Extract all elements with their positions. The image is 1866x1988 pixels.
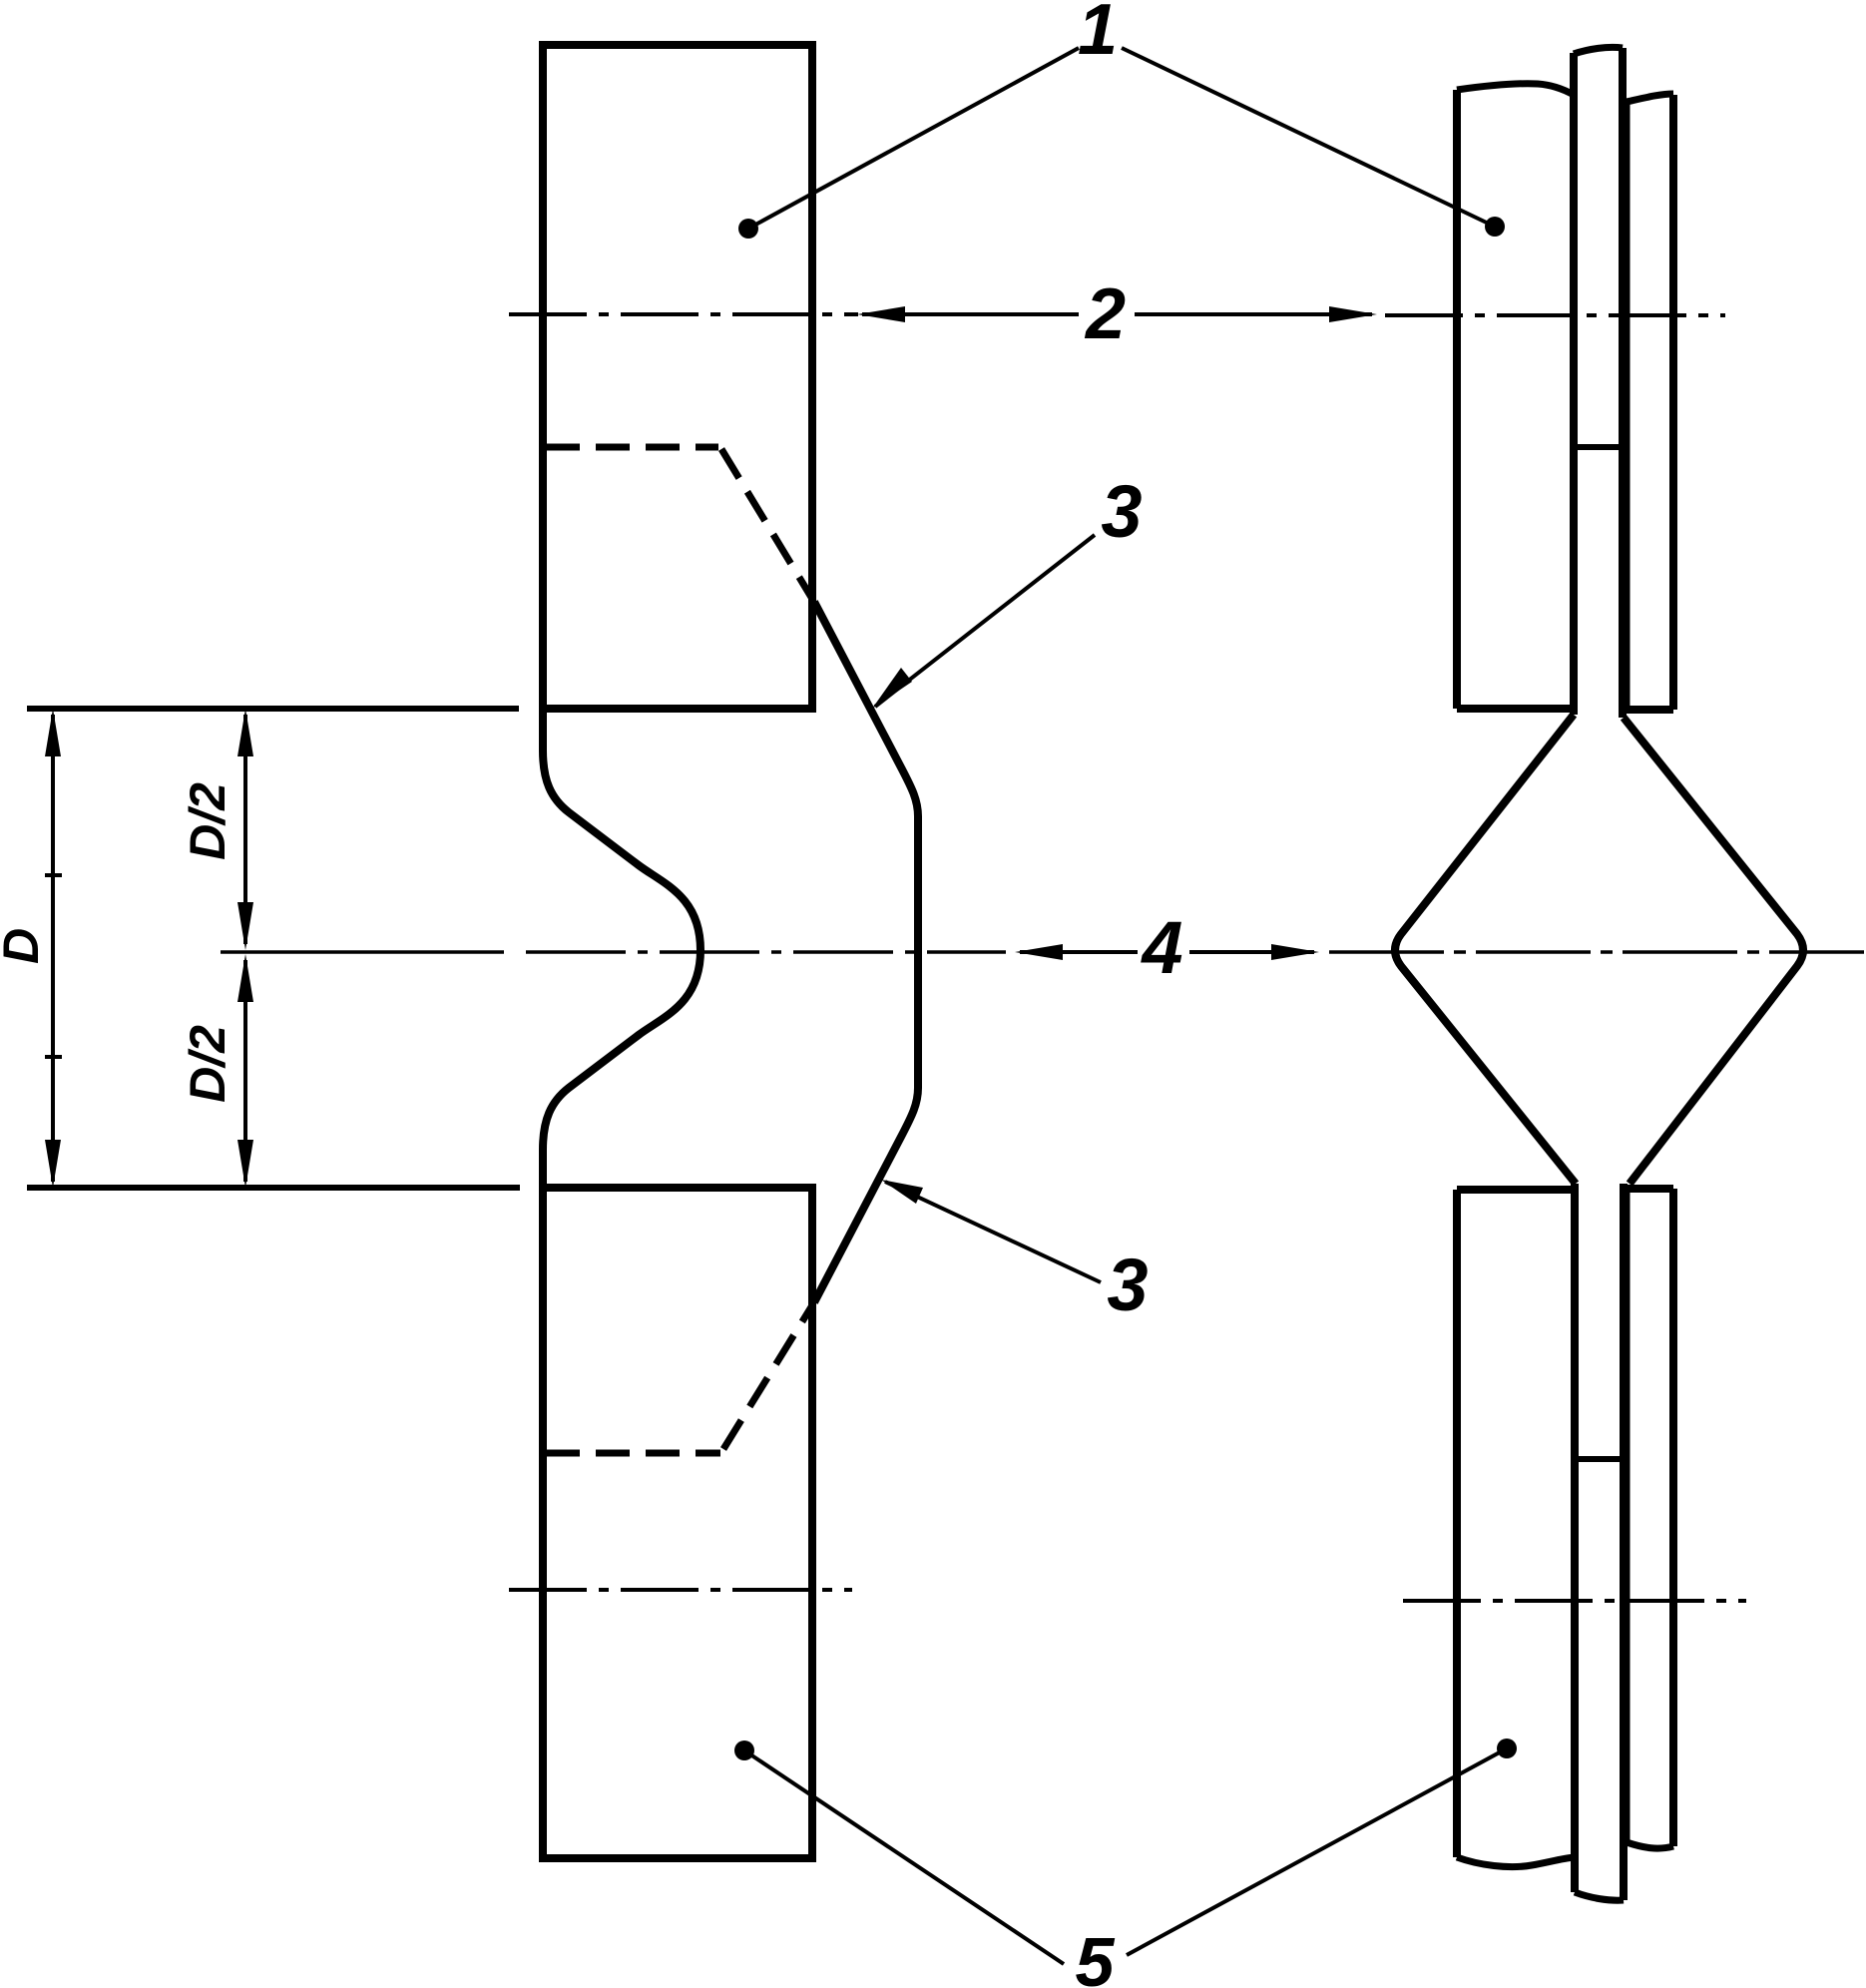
- svg-text:5: 5: [1076, 1923, 1116, 1988]
- svg-text:1: 1: [1078, 0, 1118, 70]
- svg-text:2: 2: [1084, 274, 1126, 354]
- svg-text:4: 4: [1140, 906, 1182, 989]
- svg-text:3: 3: [1107, 1243, 1148, 1326]
- svg-text:D/2: D/2: [180, 782, 235, 860]
- svg-text:D/2: D/2: [180, 1025, 235, 1103]
- svg-text:D: D: [0, 928, 49, 964]
- svg-text:3: 3: [1101, 470, 1142, 553]
